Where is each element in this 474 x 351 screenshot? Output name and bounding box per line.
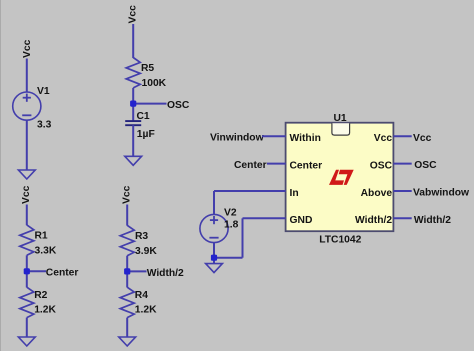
junction node OSC (130, 101, 136, 107)
svg-text:Vcc: Vcc (122, 185, 133, 204)
svg-text:Vcc: Vcc (413, 133, 432, 144)
svg-text:Vcc: Vcc (22, 39, 33, 58)
svg-text:3.3: 3.3 (37, 120, 52, 131)
resistor R5 (126, 58, 140, 88)
junction node V2/GND (211, 255, 217, 261)
resistor R1 (20, 225, 34, 255)
wire pin In horizontal (214, 190, 286, 192)
wire GND down (242, 218, 244, 257)
resistor R2 (20, 287, 34, 317)
wire node to Center label (27, 270, 46, 272)
svg-text:100K: 100K (142, 78, 167, 89)
wire Vcc to V1 top (26, 59, 28, 93)
svg-text:GND: GND (290, 215, 313, 226)
wire Center to pin Center (267, 163, 286, 165)
svg-text:OSC: OSC (370, 160, 393, 171)
svg-text:R5: R5 (141, 63, 154, 74)
wire V2 bottom to ground (213, 243, 215, 264)
svg-text:OSC: OSC (414, 160, 437, 171)
svg-text:Center: Center (290, 160, 323, 171)
svg-text:Width/2: Width/2 (355, 215, 392, 226)
svg-text:V1: V1 (37, 86, 50, 97)
wire C1 to ground (132, 125, 134, 156)
svg-text:Center: Center (234, 160, 267, 171)
svg-text:R1: R1 (35, 230, 48, 241)
wire R3 to R4 (126, 256, 128, 288)
net label Vcc (V1 branch) (22, 39, 33, 58)
junction node Width/2 (124, 268, 130, 274)
svg-text:Width/2: Width/2 (147, 268, 184, 279)
wire R1 to R2 (26, 255, 28, 287)
wire Vcc to R5 (132, 24, 134, 58)
svg-text:Vabwindow: Vabwindow (413, 188, 470, 199)
svg-text:R2: R2 (34, 290, 47, 301)
svg-text:Center: Center (46, 268, 79, 279)
junction node Center (24, 268, 30, 274)
svg-text:U1: U1 (334, 113, 347, 124)
ground (C1) (125, 156, 142, 165)
wire Vcc to R3 (126, 205, 128, 226)
svg-text:1.2K: 1.2K (34, 304, 56, 315)
svg-text:Vinwindow: Vinwindow (210, 133, 265, 144)
ground (V2) (206, 264, 223, 273)
wire pin to label Vcc (393, 135, 411, 137)
svg-text:1µF: 1µF (137, 129, 155, 140)
svg-text:Width/2: Width/2 (414, 215, 451, 226)
net label Vcc (R1 branch) (21, 185, 32, 204)
svg-text:Vcc: Vcc (21, 185, 32, 204)
svg-text:1.8: 1.8 (224, 220, 239, 231)
wire node to Width/2 label (127, 270, 146, 272)
wire R4 to ground (126, 318, 128, 337)
voltage source V2 (200, 214, 228, 242)
wire R2 to ground (26, 318, 28, 337)
wire R5 to C1 (132, 88, 134, 121)
svg-text:R3: R3 (135, 231, 148, 242)
svg-text:3.3K: 3.3K (35, 245, 57, 256)
svg-text:V2: V2 (224, 207, 237, 218)
svg-text:Above: Above (361, 188, 393, 199)
wire In down to V2 top (213, 191, 215, 214)
wire pin to label Width/2 (393, 217, 411, 219)
wire node to OSC label (133, 103, 166, 105)
capacitor C1 (125, 121, 141, 125)
wire pin to label OSC (393, 163, 411, 165)
svg-text:LTC1042: LTC1042 (319, 234, 361, 245)
wire pin to label Vabwindow (393, 190, 411, 192)
resistor R3 (120, 225, 134, 255)
resistor R4 (120, 287, 134, 317)
svg-text:Vcc: Vcc (374, 133, 393, 144)
svg-text:3.9K: 3.9K (135, 246, 157, 257)
svg-text:Vcc: Vcc (128, 5, 139, 24)
wire V1 bottom to ground (26, 120, 28, 170)
net label Vcc (R5 branch) (128, 5, 139, 24)
ground (R4) (119, 337, 136, 346)
wire pin GND horizontal (243, 217, 286, 219)
svg-text:OSC: OSC (167, 100, 190, 111)
ground (V1) (18, 170, 35, 179)
net label Vcc (R3 branch) (122, 185, 133, 204)
wire Vcc to R1 (26, 205, 28, 226)
wire GND across to V2 minus node (214, 257, 243, 259)
wire Vinwindow to pin Within (262, 135, 286, 137)
svg-text:R4: R4 (135, 290, 148, 301)
svg-text:In: In (290, 188, 299, 199)
svg-text:Within: Within (290, 133, 321, 144)
logo LT (329, 170, 354, 185)
svg-text:1.2K: 1.2K (135, 304, 157, 315)
IC U1 LTC1042 body (286, 123, 394, 232)
ground (R2) (18, 337, 35, 346)
voltage source V1 (13, 92, 41, 120)
